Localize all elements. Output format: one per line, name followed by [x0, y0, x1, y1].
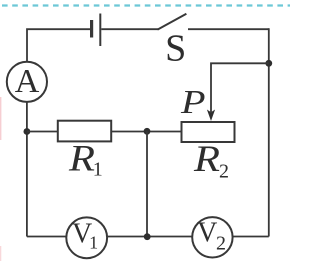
wire: top-left corner from ammeter to battery — [27, 29, 90, 62]
decorative left pink edge marks — [0, 97, 2, 140]
wire: R1 to R2 with middle junction — [111, 131, 181, 133]
rheostat R2 — [182, 122, 235, 142]
wire: ammeter down through left junction to bottom-left corner — [26, 102, 28, 237]
svg-text:P: P — [180, 84, 206, 121]
ammeter A — [7, 62, 47, 102]
wire: from right junction to wiper arrow — [211, 63, 269, 112]
svg-text:1: 1 — [89, 232, 98, 252]
node: left junction — [24, 128, 31, 135]
battery short plate — [90, 20, 93, 38]
rheostat R2 label — [193, 138, 220, 180]
battery long plate — [99, 14, 101, 47]
wire: bottom-left corner to V1 — [27, 236, 67, 238]
switch S blade — [158, 14, 187, 30]
voltmeter V1 — [66, 217, 107, 258]
resistor R1 — [58, 121, 111, 142]
wire: left junction to R1 — [27, 131, 58, 133]
wire: right vertical side — [268, 28, 270, 236]
wire: middle vertical — [146, 131, 148, 236]
voltmeter V2 — [192, 217, 232, 257]
wiper arrow head into R2 — [207, 110, 215, 122]
svg-text:R: R — [68, 137, 95, 179]
wiper label P — [180, 84, 206, 121]
node: middle junction — [144, 128, 151, 135]
node: junction on right wire — [265, 60, 272, 67]
svg-text:2: 2 — [216, 232, 226, 254]
svg-text:V: V — [197, 218, 217, 249]
decorative top dashed border (cyan) — [2, 4, 290, 6]
wire: V1 to V2 through bottom middle junction — [107, 236, 192, 238]
wire: V2 to bottom-right corner — [233, 236, 269, 238]
svg-text:2: 2 — [219, 161, 229, 183]
wire: battery to switch left contact — [101, 28, 158, 30]
resistor R1 label — [68, 137, 95, 179]
wire: switch right contact to top-right corner — [188, 28, 269, 30]
node: bottom middle junction — [144, 233, 151, 240]
svg-text:1: 1 — [93, 158, 103, 180]
svg-text:R: R — [193, 138, 220, 180]
svg-text:S: S — [165, 28, 186, 70]
svg-text:A: A — [15, 63, 40, 100]
